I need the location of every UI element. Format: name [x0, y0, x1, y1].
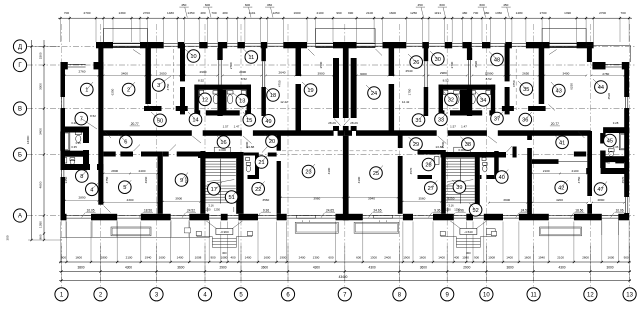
svg-text:4570: 4570 — [409, 167, 413, 174]
svg-text:3: 3 — [157, 83, 160, 89]
svg-text:900: 900 — [474, 256, 479, 260]
svg-text:2890: 2890 — [79, 196, 86, 200]
svg-text:700: 700 — [64, 11, 69, 15]
svg-text:45: 45 — [607, 139, 613, 145]
svg-text:2100: 2100 — [557, 256, 564, 260]
dashed beam room23 — [282, 150, 342, 152]
svg-text:3560: 3560 — [418, 197, 425, 201]
svg-text:1008: 1008 — [488, 256, 495, 260]
svg-text:50: 50 — [157, 118, 163, 124]
svg-text:26: 26 — [413, 60, 419, 66]
top dimension line with ticks — [58, 17, 632, 19]
corridor bottom wall segments — [99, 130, 192, 136]
svg-text:2500: 2500 — [319, 61, 323, 68]
wall V8a x336 — [333, 58, 339, 118]
svg-text:1350: 1350 — [188, 11, 195, 15]
stair R right wall — [475, 158, 480, 214]
bottom outer wall segments — [61, 214, 67, 221]
right entrance porch with steps — [456, 238, 480, 240]
svg-text:2400: 2400 — [139, 169, 146, 173]
svg-text:9.36: 9.36 — [263, 208, 269, 212]
dashed line x516 — [515, 49, 517, 110]
stair left with steps — [206, 158, 236, 160]
corridor top wall segments — [144, 106, 162, 111]
svg-text:2890: 2890 — [597, 198, 604, 202]
svg-text:12: 12 — [587, 292, 594, 298]
svg-text:24.65: 24.65 — [326, 208, 334, 212]
svg-text:40: 40 — [499, 175, 505, 181]
svg-text:1900: 1900 — [280, 256, 287, 260]
svg-text:4750: 4750 — [577, 176, 581, 183]
svg-text:48: 48 — [494, 58, 500, 64]
svg-text:42: 42 — [558, 186, 564, 192]
svg-text:8.52: 8.52 — [486, 77, 492, 81]
left balconies — [61, 236, 210, 238]
svg-text:4570: 4570 — [184, 176, 188, 183]
svg-text:960: 960 — [39, 234, 43, 239]
svg-text:1900: 1900 — [403, 256, 410, 260]
svg-text:44: 44 — [598, 85, 604, 91]
svg-text:20.77: 20.77 — [551, 122, 559, 126]
svg-text:450: 450 — [181, 3, 186, 7]
svg-text:3.96: 3.96 — [458, 208, 464, 212]
wall V1 x100 — [98, 42, 103, 205]
svg-text:600: 600 — [440, 3, 445, 7]
svg-text:13: 13 — [626, 292, 633, 298]
svg-text:2400: 2400 — [384, 256, 391, 260]
svg-text:3600: 3600 — [506, 266, 513, 270]
svg-text:32: 32 — [448, 98, 454, 104]
bottom wall windows — [67, 214, 92, 216]
svg-text:2900: 2900 — [219, 266, 226, 270]
svg-text:1.57: 1.57 — [450, 125, 456, 129]
svg-text:9.36: 9.36 — [434, 208, 440, 212]
svg-text:3960: 3960 — [313, 197, 320, 201]
stair top wall R — [441, 152, 507, 158]
svg-text:15: 15 — [246, 118, 252, 124]
svg-text:1390: 1390 — [119, 11, 126, 15]
svg-text:25: 25 — [373, 171, 379, 177]
top right corner line — [588, 45, 631, 47]
svg-text:8.52: 8.52 — [241, 77, 247, 81]
svg-text:3900: 3900 — [175, 197, 182, 201]
wall V8 mirror — [351, 58, 357, 118]
svg-text:19: 19 — [307, 88, 313, 94]
svg-text:3.28: 3.28 — [613, 121, 619, 125]
svg-text:1.47: 1.47 — [461, 125, 467, 129]
svg-text:33: 33 — [438, 117, 444, 123]
svg-text:18.56: 18.56 — [144, 208, 152, 212]
wall H y154 left — [103, 152, 115, 157]
internal dim lines lower rooms — [65, 200, 98, 202]
center wall lower — [343, 136, 349, 221]
svg-text:1500: 1500 — [441, 141, 445, 148]
far-right bath cluster — [603, 127, 629, 133]
WC closet right of left stair — [244, 153, 259, 156]
svg-text:16: 16 — [220, 140, 226, 146]
svg-text:12990: 12990 — [485, 71, 494, 75]
svg-text:2540: 2540 — [406, 69, 413, 73]
svg-text:2780: 2780 — [602, 72, 609, 76]
svg-text:11: 11 — [248, 55, 254, 61]
svg-text:1940: 1940 — [145, 256, 152, 260]
horizontal axis dash-dot lines — [27, 46, 636, 48]
svg-text:1600: 1600 — [389, 11, 396, 15]
svg-text:600: 600 — [205, 3, 210, 7]
svg-text:3400: 3400 — [121, 72, 128, 76]
svg-text:1500: 1500 — [39, 52, 43, 59]
svg-text:47: 47 — [597, 187, 603, 193]
svg-text:8.52: 8.52 — [198, 79, 204, 83]
bottom dim row B line — [59, 271, 631, 273]
svg-text:600: 600 — [480, 3, 485, 7]
svg-text:1480: 1480 — [516, 11, 523, 15]
svg-text:1600: 1600 — [419, 256, 426, 260]
door leaf diagonals — [192, 136, 201, 143]
svg-text:1080: 1080 — [462, 256, 469, 260]
svg-text:4520: 4520 — [60, 90, 64, 97]
room number circles — [81, 83, 94, 96]
svg-text:1600: 1600 — [608, 256, 615, 260]
svg-text:31: 31 — [415, 118, 421, 124]
svg-text:6250: 6250 — [569, 83, 573, 90]
wall V x400 rooms25-27 — [398, 131, 403, 148]
svg-text:21: 21 — [258, 160, 264, 166]
svg-text:450: 450 — [418, 3, 423, 7]
top-right step wall with window — [592, 62, 605, 69]
right balconies — [540, 227, 582, 236]
svg-text:13: 13 — [239, 99, 245, 105]
stair right with steps — [446, 158, 475, 160]
svg-text:2990: 2990 — [200, 70, 207, 74]
svg-text:1191: 1191 — [434, 11, 441, 15]
axis circles bottom (numbers) — [55, 288, 68, 301]
svg-text:3600: 3600 — [177, 266, 184, 270]
svg-text:700: 700 — [621, 11, 626, 15]
svg-text:2700: 2700 — [143, 11, 150, 15]
svg-text:3400: 3400 — [39, 128, 43, 135]
svg-text:4200: 4200 — [556, 198, 563, 202]
svg-text:2700: 2700 — [540, 11, 547, 15]
svg-text:8.52: 8.52 — [443, 79, 449, 83]
svg-text:450: 450 — [503, 3, 508, 7]
svg-text:1300: 1300 — [313, 256, 320, 260]
svg-text:14: 14 — [192, 118, 198, 124]
svg-text:1500: 1500 — [245, 141, 249, 148]
svg-text:1400: 1400 — [506, 256, 513, 260]
wall V4 mirror — [467, 48, 472, 60]
wall V x530 rooms40-42 — [527, 131, 532, 140]
top extension lines — [60, 17, 62, 43]
svg-text:12.42: 12.42 — [280, 100, 288, 104]
svg-text:1250: 1250 — [273, 11, 280, 15]
svg-text:51: 51 — [228, 195, 234, 201]
svg-text:4300: 4300 — [327, 167, 331, 174]
wall V7 mirror — [389, 48, 395, 76]
axis circles left (letters) — [13, 40, 26, 53]
svg-text:1.47: 1.47 — [234, 125, 240, 129]
svg-text:700: 700 — [211, 11, 216, 15]
svg-text:2700: 2700 — [229, 62, 233, 69]
right outer wall with windows — [624, 62, 629, 97]
wall V3 x182 — [180, 44, 185, 81]
svg-text:В: В — [18, 107, 22, 113]
svg-text:1600: 1600 — [75, 256, 82, 260]
svg-text:1600: 1600 — [524, 256, 531, 260]
svg-text:29: 29 — [413, 142, 419, 148]
svg-text:3800: 3800 — [77, 266, 84, 270]
svg-text:2100: 2100 — [572, 169, 579, 173]
svg-text:990: 990 — [336, 11, 341, 15]
svg-text:7: 7 — [80, 117, 83, 123]
svg-text:2980: 2980 — [440, 71, 447, 75]
svg-text:-4.540: -4.540 — [464, 230, 473, 234]
svg-text:1.57: 1.57 — [223, 125, 229, 129]
svg-text:-0.960: -0.960 — [220, 230, 229, 234]
svg-text:4300: 4300 — [369, 266, 376, 270]
svg-text:3.28: 3.28 — [71, 121, 77, 125]
svg-text:3.16: 3.16 — [208, 204, 214, 208]
bottom dim row A line — [59, 261, 631, 263]
bottom dim total line 43400 — [59, 280, 631, 282]
svg-text:49: 49 — [265, 119, 271, 125]
svg-text:2640: 2640 — [279, 71, 286, 75]
svg-text:3.16: 3.16 — [448, 204, 454, 208]
svg-text:2100: 2100 — [366, 11, 373, 15]
bottom extension lines — [60, 222, 62, 263]
svg-text:10.06: 10.06 — [616, 208, 624, 212]
WC cluster right with fixtures — [439, 85, 443, 116]
svg-text:8.52: 8.52 — [90, 114, 96, 118]
svg-text:6250: 6250 — [110, 88, 114, 95]
wall V6 x263 — [261, 48, 266, 61]
svg-text:2700: 2700 — [450, 61, 454, 68]
vertical axis dash-dot lines — [61, 24, 63, 287]
svg-text:1008: 1008 — [195, 256, 202, 260]
svg-text:1250: 1250 — [445, 208, 451, 212]
svg-text:37: 37 — [494, 117, 500, 123]
svg-text:20.77: 20.77 — [131, 122, 139, 126]
svg-text:4750: 4750 — [166, 83, 170, 90]
svg-text:2700: 2700 — [599, 11, 606, 15]
svg-text:2100: 2100 — [126, 256, 133, 260]
svg-text:4570: 4570 — [621, 176, 625, 183]
svg-text:22: 22 — [255, 187, 261, 193]
svg-text:10: 10 — [483, 292, 490, 298]
svg-text:13300: 13300 — [26, 135, 30, 144]
svg-text:3600: 3600 — [420, 266, 427, 270]
svg-text:3940: 3940 — [368, 197, 375, 201]
svg-text:300: 300 — [6, 235, 10, 240]
svg-text:3560: 3560 — [262, 198, 269, 202]
svg-text:41: 41 — [559, 140, 565, 146]
svg-text:600: 600 — [356, 256, 361, 260]
svg-text:1400: 1400 — [245, 256, 252, 260]
dashed beam room25 — [350, 150, 398, 152]
svg-text:1600: 1600 — [264, 256, 271, 260]
svg-text:27: 27 — [428, 186, 434, 192]
svg-text:2590: 2590 — [474, 61, 478, 68]
svg-text:24.65: 24.65 — [374, 208, 382, 212]
svg-text:3000: 3000 — [360, 72, 367, 76]
svg-text:700: 700 — [473, 11, 478, 15]
svg-text:30: 30 — [435, 57, 441, 63]
wall V7 x298 — [296, 48, 302, 76]
svg-text:24.52: 24.52 — [521, 208, 529, 212]
wall V6 mirror — [424, 48, 429, 61]
svg-text:24.52: 24.52 — [187, 208, 195, 212]
svg-text:Д: Д — [18, 45, 22, 51]
svg-text:1400: 1400 — [438, 256, 445, 260]
svg-text:400: 400 — [230, 256, 235, 260]
room9 top wall — [163, 152, 169, 157]
WC closet right of right stair — [480, 153, 494, 156]
svg-text:35: 35 — [523, 87, 529, 93]
dashed line x173 — [172, 49, 174, 110]
stair left wall L — [200, 151, 205, 214]
svg-text:3900: 3900 — [503, 198, 510, 202]
svg-text:12: 12 — [202, 97, 208, 103]
stair right wall L — [236, 158, 243, 214]
svg-text:3000: 3000 — [606, 266, 613, 270]
wall H top of room42 — [532, 159, 559, 164]
svg-text:1480: 1480 — [167, 11, 174, 15]
svg-text:4530: 4530 — [607, 93, 611, 100]
svg-text:9250: 9250 — [448, 197, 455, 201]
svg-text:23: 23 — [305, 170, 311, 176]
svg-text:1080: 1080 — [221, 256, 228, 260]
svg-text:2700: 2700 — [84, 11, 91, 15]
svg-text:28.29: 28.29 — [350, 121, 358, 125]
svg-text:0.000: 0.000 — [219, 148, 227, 152]
room leader lines — [159, 76, 171, 85]
svg-text:17: 17 — [211, 187, 217, 193]
svg-text:600: 600 — [245, 3, 250, 7]
svg-text:2100: 2100 — [317, 11, 324, 15]
svg-text:20: 20 — [269, 139, 275, 145]
top-left step wall with window — [61, 62, 68, 69]
stair top wall L — [198, 152, 244, 158]
svg-text:3400: 3400 — [562, 71, 569, 75]
center balconies — [295, 222, 338, 233]
svg-text:2400: 2400 — [299, 256, 306, 260]
internal dim lines upper rooms — [65, 75, 98, 77]
svg-text:28.29: 28.29 — [328, 121, 336, 125]
svg-text:900: 900 — [61, 256, 66, 260]
svg-text:900: 900 — [624, 256, 629, 260]
svg-text:2100: 2100 — [543, 169, 550, 173]
svg-text:1940: 1940 — [538, 256, 545, 260]
svg-text:600: 600 — [328, 256, 333, 260]
wall V x278 rooms22-23 — [277, 131, 281, 151]
svg-text:300: 300 — [222, 251, 227, 255]
svg-text:3900: 3900 — [318, 72, 325, 76]
svg-text:-46: -46 — [605, 160, 610, 164]
svg-text:34: 34 — [480, 98, 486, 104]
WC cluster left with fixtures — [194, 85, 198, 116]
svg-text:480: 480 — [462, 11, 467, 15]
svg-text:24: 24 — [371, 91, 377, 97]
svg-text:39: 39 — [456, 185, 462, 191]
svg-text:4750: 4750 — [105, 176, 109, 183]
svg-text:900: 900 — [210, 256, 215, 260]
svg-text:18: 18 — [270, 93, 276, 99]
svg-text:450: 450 — [267, 3, 272, 7]
svg-text:28: 28 — [425, 163, 431, 169]
svg-text:1400: 1400 — [177, 256, 184, 260]
svg-text:1350: 1350 — [39, 221, 43, 228]
svg-text:1250: 1250 — [410, 11, 417, 15]
svg-text:11: 11 — [530, 292, 537, 298]
svg-text:4300: 4300 — [558, 266, 565, 270]
svg-text:4300: 4300 — [357, 176, 361, 183]
balcony door thresholds — [297, 214, 316, 216]
svg-text:52: 52 — [472, 208, 478, 214]
wall V5 x160 — [158, 152, 163, 214]
svg-text:12.42: 12.42 — [402, 100, 410, 104]
wall V2 x148 — [145, 48, 151, 104]
svg-text:3300: 3300 — [39, 83, 43, 90]
svg-text:2650: 2650 — [160, 72, 167, 76]
svg-text:480: 480 — [222, 11, 227, 15]
svg-text:1300: 1300 — [370, 256, 377, 260]
svg-text:300: 300 — [466, 251, 471, 255]
svg-text:1350: 1350 — [495, 11, 502, 15]
svg-text:4600: 4600 — [39, 181, 43, 188]
svg-text:4360: 4360 — [527, 176, 531, 183]
left entrance porch with steps — [212, 238, 236, 240]
far-left bath cluster — [61, 127, 87, 133]
svg-text:3450: 3450 — [64, 176, 68, 183]
svg-text:1250: 1250 — [214, 208, 220, 212]
svg-text:38: 38 — [465, 142, 471, 148]
svg-text:1600: 1600 — [294, 11, 301, 15]
svg-text:990: 990 — [348, 11, 353, 15]
svg-text:480: 480 — [200, 11, 205, 15]
wall V2 mirror — [539, 48, 545, 104]
svg-text:4300: 4300 — [127, 198, 134, 202]
svg-text:43400: 43400 — [339, 275, 348, 279]
svg-text:2800: 2800 — [101, 256, 108, 260]
svg-text:2900: 2900 — [463, 266, 470, 270]
svg-text:3600: 3600 — [261, 266, 268, 270]
wall H y154 right — [574, 152, 586, 157]
top wall windows — [113, 43, 140, 45]
wall V4 x220 — [217, 48, 222, 60]
svg-text:3.35: 3.35 — [613, 145, 619, 149]
left dimension lines — [31, 40, 33, 240]
svg-text:43: 43 — [556, 89, 562, 95]
svg-text:4750: 4750 — [512, 80, 516, 87]
top outer wall segments — [96, 42, 113, 48]
svg-text:1390: 1390 — [564, 11, 571, 15]
svg-text:1250: 1250 — [205, 208, 211, 212]
svg-text:Б: Б — [18, 153, 22, 159]
svg-text:10.05: 10.05 — [87, 208, 95, 212]
svg-text:4300: 4300 — [125, 266, 132, 270]
wall V x590 rooms42-47 — [587, 131, 592, 196]
svg-text:2800: 2800 — [111, 169, 118, 173]
top balcony parapets — [104, 29, 148, 48]
svg-text:4750: 4750 — [277, 80, 281, 87]
svg-text:А: А — [18, 214, 22, 220]
svg-text:4960: 4960 — [144, 176, 148, 183]
wall V3 mirror — [505, 44, 510, 81]
room 28 walls — [418, 150, 446, 155]
svg-text:2760: 2760 — [79, 70, 86, 74]
svg-text:2800: 2800 — [582, 256, 589, 260]
svg-text:400: 400 — [454, 256, 459, 260]
